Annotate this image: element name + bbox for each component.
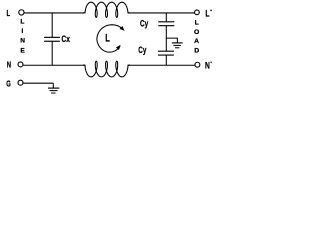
svg-text:I: I [21, 28, 23, 35]
svg-text:G: G [6, 79, 11, 89]
svg-text:L: L [20, 18, 24, 25]
svg-text:A: A [194, 38, 199, 45]
svg-text:D: D [194, 48, 199, 55]
svg-text:E: E [20, 48, 25, 55]
svg-text:O: O [194, 29, 199, 36]
svg-text:N: N [205, 60, 210, 70]
svg-text:N: N [7, 60, 11, 70]
svg-text:Cy: Cy [138, 45, 147, 55]
svg-text:L: L [105, 32, 110, 44]
svg-text:Cx: Cx [61, 34, 70, 44]
svg-text:Cy: Cy [140, 18, 149, 28]
svg-text:L: L [195, 20, 199, 27]
svg-text:L: L [205, 8, 209, 18]
svg-text:L: L [7, 8, 11, 18]
svg-text:N: N [20, 38, 25, 45]
